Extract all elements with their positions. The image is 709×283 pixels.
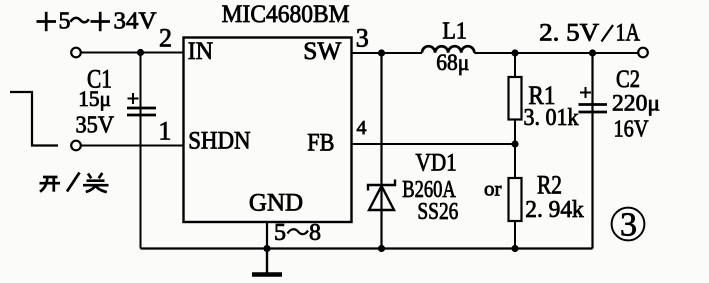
wire: input top rail to IC IN — [81, 52, 184, 54]
svg-text:SHDN: SHDN — [188, 128, 250, 155]
wire: bottom ground rail — [141, 247, 593, 249]
resistor R1 body — [509, 77, 522, 120]
svg-text:VD1: VD1 — [416, 150, 457, 177]
svg-text:68μ: 68μ — [436, 50, 469, 75]
node: GND pin on rail — [263, 245, 270, 252]
wire: SHDN to IC pin 1 — [81, 145, 184, 147]
svg-text:SW: SW — [303, 38, 341, 65]
svg-text:35V: 35V — [76, 113, 115, 139]
node: FB junction — [511, 140, 518, 147]
polarity + of C1 — [128, 93, 139, 104]
svg-text:2: 2 — [159, 24, 172, 53]
node: diode anode on rail — [378, 245, 385, 252]
wire: inductor to output terminal — [474, 52, 638, 54]
polarity + of C2 — [580, 87, 591, 98]
IC U1 MIC4680BM body — [184, 38, 352, 223]
resistor R2 body — [509, 178, 522, 221]
resistor R1 wire bottom — [514, 120, 516, 145]
svg-text:5: 5 — [274, 220, 286, 246]
svg-text:5: 5 — [59, 9, 71, 35]
wire: switch stub off-page — [10, 92, 58, 146]
svg-text:C2: C2 — [616, 66, 640, 93]
resistor R1 wire top — [514, 53, 516, 77]
node: R2 bottom on rail — [511, 245, 518, 252]
svg-text:1A: 1A — [616, 20, 641, 47]
terminal: input + — [71, 48, 81, 58]
svg-text:3: 3 — [620, 207, 637, 244]
svg-text:SS26: SS26 — [417, 199, 458, 225]
svg-text:3. 01k: 3. 01k — [524, 105, 579, 131]
svg-text:4: 4 — [357, 117, 367, 139]
pin stub: GND 5~8 — [266, 222, 268, 249]
diode VD1 schottky — [368, 180, 395, 211]
label 开/关 on-off switch — [40, 173, 109, 193]
terminal: output + — [638, 48, 648, 58]
capacitor C1 plates — [127, 108, 156, 115]
pin number 5~8 — [274, 220, 321, 246]
resistor R2 wire bottom — [514, 221, 516, 249]
ground symbol — [252, 249, 282, 275]
node: C2 top junction — [589, 49, 596, 56]
capacitor C2 plates — [579, 105, 608, 113]
figure number 3 circled — [612, 207, 645, 244]
node: C1 top junction — [137, 49, 144, 56]
svg-text:220μ: 220μ — [612, 91, 660, 116]
svg-text:15μ: 15μ — [78, 86, 111, 111]
svg-text:16V: 16V — [614, 117, 650, 143]
node: diode top junction — [378, 49, 385, 56]
resistor R2 wire top — [514, 144, 516, 178]
svg-text:2. 94k: 2. 94k — [525, 197, 583, 223]
capacitor C1 vertical wire — [140, 53, 142, 249]
svg-text:FB: FB — [307, 129, 334, 156]
svg-text:IN: IN — [188, 38, 213, 65]
svg-text:1: 1 — [158, 117, 171, 146]
wire: SW pin to inductor — [352, 52, 423, 54]
svg-text:MIC4680BM: MIC4680BM — [222, 1, 350, 28]
inductor L1 coil — [422, 46, 474, 53]
label +5~+34V input voltage — [37, 9, 158, 35]
svg-text:GND: GND — [249, 189, 303, 216]
wire: diode branch vertical — [380, 53, 382, 249]
svg-text:8: 8 — [309, 220, 321, 246]
capacitor C2 vertical wire — [591, 53, 593, 249]
svg-text:or: or — [484, 177, 502, 201]
svg-text:L1: L1 — [442, 19, 467, 45]
svg-text:2. 5V: 2. 5V — [539, 20, 599, 47]
node: R1 top junction — [511, 49, 518, 56]
label 2.5V/1A output — [539, 20, 640, 47]
wire: FB line — [352, 143, 516, 145]
svg-text:R2: R2 — [537, 171, 562, 200]
svg-text:34V: 34V — [114, 9, 158, 35]
terminal: shutdown switch — [71, 141, 81, 151]
svg-text:3: 3 — [356, 23, 369, 52]
